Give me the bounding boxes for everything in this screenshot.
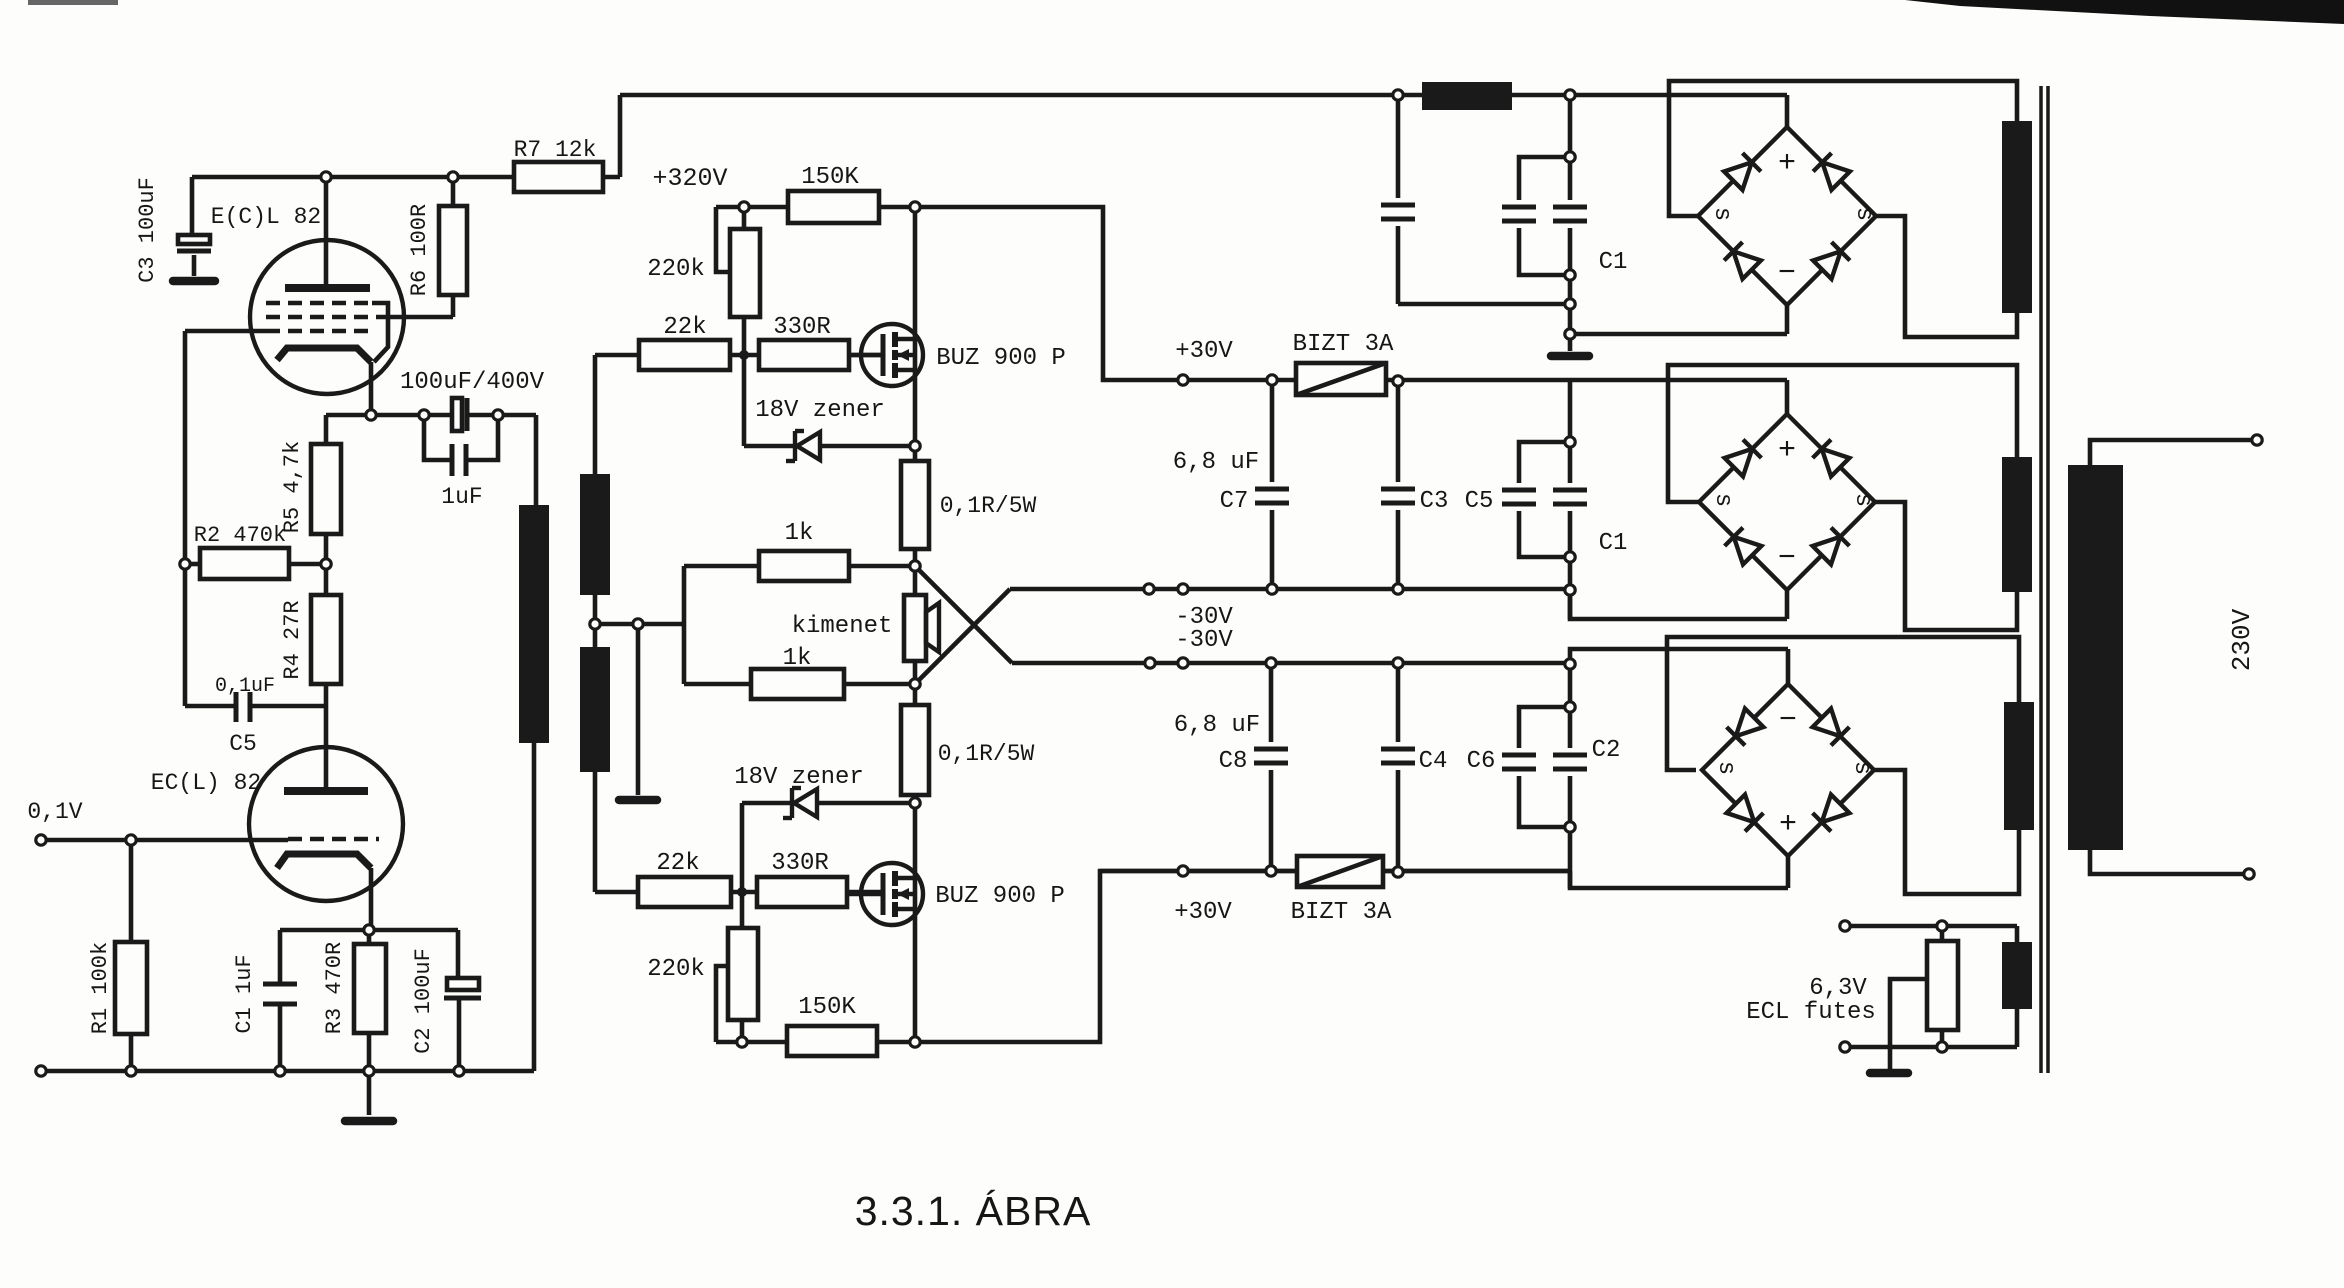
wire 1uF parallel loop xyxy=(424,415,452,460)
capacitor C3 psu plates xyxy=(1381,487,1415,492)
tube V2 cathode xyxy=(277,854,371,868)
wire heater top xyxy=(1845,924,2017,929)
heater hum pot 6,3V xyxy=(1927,941,1958,1030)
wire lower 150K rail xyxy=(716,1040,787,1045)
svg-text:C3: C3 xyxy=(1420,488,1449,515)
resistor 1k upper xyxy=(759,551,849,581)
wire g1 V1 left xyxy=(185,329,266,334)
diode B3 upper-right xyxy=(1813,709,1841,737)
wire cathode node R3/C1/C2 xyxy=(280,928,458,933)
wire 150K to drain node and +30V feed xyxy=(879,207,1787,380)
resistor 150K upper xyxy=(788,191,879,223)
capacitor B+ pair right xyxy=(1553,205,1587,210)
svg-text:+: + xyxy=(1778,147,1796,181)
svg-text:150K: 150K xyxy=(798,994,856,1021)
wire B+ filter column x1398 xyxy=(1396,95,1401,198)
svg-text:6,8 uF: 6,8 uF xyxy=(1173,449,1259,476)
wire R2 right to R5/R4 node xyxy=(289,562,326,567)
svg-text:s: s xyxy=(1712,761,1739,775)
svg-text:330R: 330R xyxy=(773,314,831,341)
wire lower device column xyxy=(913,803,918,1042)
wire lower pair column xyxy=(1568,664,1573,748)
wire R6 screen grid xyxy=(451,177,456,206)
diode B2 lower-left xyxy=(1734,537,1762,565)
capacitor C1 pair right xyxy=(1553,488,1587,493)
wire output transformer primary bottom xyxy=(532,743,537,1071)
wire 220k top stub xyxy=(742,207,747,229)
wire lower pair loop xyxy=(1519,707,1570,748)
svg-text:1k: 1k xyxy=(783,645,812,672)
wire lower filter C8 column xyxy=(1269,663,1274,742)
zener diode Z1 18V xyxy=(793,431,797,461)
wire zener1 row xyxy=(744,444,797,449)
capacitor B+ pair left xyxy=(1502,205,1536,210)
svg-text:C6: C6 xyxy=(1467,748,1496,775)
svg-text:R3 470R: R3 470R xyxy=(322,942,347,1034)
transformer core lines xyxy=(2039,86,2043,1073)
svg-text:+320V: +320V xyxy=(652,164,727,193)
resistor R2 470k xyxy=(200,548,289,579)
resistor R1 100k xyxy=(115,942,147,1034)
wire R2 left stub xyxy=(185,562,200,567)
wire B+ filter pair column xyxy=(1568,95,1573,200)
svg-text:R6 100R: R6 100R xyxy=(407,204,432,296)
bridge rectifier B1 diamond xyxy=(1698,127,1876,305)
wire 230V primary bottom xyxy=(2090,850,2249,874)
wire +320V L-stub to 220k xyxy=(716,207,730,272)
svg-text:0,1V: 0,1V xyxy=(27,799,82,825)
resistor 0,1R/5W lower xyxy=(901,705,929,795)
wire input 0,1V xyxy=(41,838,131,843)
diode B1 lower-right xyxy=(1813,251,1841,279)
svg-text:C4: C4 xyxy=(1419,748,1448,775)
svg-text:−: − xyxy=(1778,542,1796,576)
wire B+ pair loop xyxy=(1519,157,1570,200)
tube V2 grid dashed xyxy=(288,837,379,841)
svg-text:C2: C2 xyxy=(1592,737,1621,764)
svg-text:R7 12k: R7 12k xyxy=(514,137,597,163)
resistor 150K lower xyxy=(787,1026,877,1056)
svg-text:1uF: 1uF xyxy=(441,484,482,510)
svg-text:EC(L) 82: EC(L) 82 xyxy=(151,770,261,796)
diode B2 lower-right xyxy=(1813,537,1841,565)
diode B1 upper-left xyxy=(1724,162,1752,190)
svg-text:−: − xyxy=(1779,704,1797,738)
tube V2 EC(L) 82 envelope xyxy=(249,747,403,901)
svg-text:C2 100uF: C2 100uF xyxy=(411,948,436,1054)
tube V1 anode bar xyxy=(285,284,370,292)
resistor 220k upper xyxy=(730,229,760,317)
wire cathode node to 100uF xyxy=(326,413,452,418)
svg-text:220k: 220k xyxy=(647,956,705,983)
wire secondary center tap xyxy=(593,595,598,647)
heater winding xyxy=(2002,942,2032,1009)
wire 100uF right to transformer xyxy=(467,413,536,418)
capacitor C6 pair left xyxy=(1502,753,1536,758)
wire B+ ground stub xyxy=(1568,334,1573,351)
svg-text:E(C)L 82: E(C)L 82 xyxy=(211,204,321,230)
wire bridge2 + stub xyxy=(1785,380,1790,414)
svg-text:3.3.1. ÁBRA: 3.3.1. ÁBRA xyxy=(855,1188,1092,1234)
svg-text:BUZ 900 P: BUZ 900 P xyxy=(935,883,1065,910)
svg-text:−: − xyxy=(1778,257,1796,291)
wire secondary bottom to lower 22k xyxy=(593,772,598,892)
svg-text:C1: C1 xyxy=(1599,249,1628,276)
resistor R4 27R xyxy=(311,595,341,684)
resistor R6 100R xyxy=(439,206,467,295)
output transformer primary winding xyxy=(519,505,549,743)
svg-text:BUZ 900 P: BUZ 900 P xyxy=(936,345,1066,372)
svg-text:6,3V: 6,3V xyxy=(1809,975,1867,1002)
svg-text:22k: 22k xyxy=(663,314,706,341)
wire bridge2 winding loop xyxy=(1668,365,2017,502)
resistor 330R upper xyxy=(759,340,849,370)
scan artifact top-right wedge xyxy=(1905,0,2344,24)
wire speaker column xyxy=(913,566,918,595)
wire top-left plate rail xyxy=(192,175,514,180)
capacitor C5 0,1uF plates xyxy=(234,692,239,722)
transistor Q2 BUZ 900 P xyxy=(861,863,923,925)
svg-text:18V zener: 18V zener xyxy=(755,397,885,424)
resistor 220k lower xyxy=(728,928,758,1020)
capacitor C1 1uF plates xyxy=(263,982,297,987)
svg-text:0,1R/5W: 0,1R/5W xyxy=(940,493,1037,519)
tube V1 E(C)L 82 envelope xyxy=(250,240,404,394)
wire lower 220k L-stub xyxy=(716,966,728,1042)
svg-text:6,8 uF: 6,8 uF xyxy=(1174,712,1260,739)
wire 22k-330R junction column upper xyxy=(742,317,747,355)
capacitor 1uF plates xyxy=(450,444,455,476)
wire -30V jog to bridge3 - xyxy=(1570,649,1788,663)
transformer winding bridge2 xyxy=(2002,457,2032,592)
resistor 22k lower xyxy=(638,877,731,907)
wire -30V rail lower xyxy=(1012,661,1570,666)
wire R3 column xyxy=(367,930,372,944)
svg-text:0,1R/5W: 0,1R/5W xyxy=(938,741,1035,767)
svg-text:330R: 330R xyxy=(771,850,829,877)
svg-text:R1 100k: R1 100k xyxy=(88,942,113,1034)
wire -30V rail upper xyxy=(1010,587,1570,592)
wire +30V jog to bridge3 + xyxy=(1570,871,1788,888)
svg-text:C5: C5 xyxy=(229,731,257,757)
wire +320V node xyxy=(716,205,789,210)
wire 22k-330R junction column lower xyxy=(740,803,745,892)
wire lower filter C4 column xyxy=(1396,663,1401,742)
wire ground stub R3 xyxy=(367,1071,372,1115)
capacitor C4 plates xyxy=(1381,747,1415,752)
wire R1 column xyxy=(129,840,134,942)
wire bridge3 winding loop xyxy=(1667,637,2019,770)
svg-text:-30V: -30V xyxy=(1175,627,1233,654)
wire gate stub upper xyxy=(849,353,884,358)
transistor Q1 BUZ 900 P xyxy=(861,324,923,386)
wire upper pair column xyxy=(1568,380,1573,483)
tube V1 g3 tie to cathode xyxy=(372,303,388,362)
wire heater bottom xyxy=(1845,1045,2017,1050)
capacitor C7 plates xyxy=(1255,487,1289,492)
svg-text:C1 1uF: C1 1uF xyxy=(232,954,257,1033)
wire output diagonal lower xyxy=(915,589,1010,684)
wire -30V jog to bridge2 - xyxy=(1570,589,1787,619)
svg-text:BIZT 3A: BIZT 3A xyxy=(1291,899,1392,926)
wire C1 column xyxy=(278,930,283,984)
resistor 0,1R/5W upper xyxy=(901,461,929,549)
tube V2 anode bar xyxy=(284,787,368,795)
diode B1 lower-left xyxy=(1733,251,1761,279)
diode B3 lower-left xyxy=(1727,795,1755,823)
svg-text:C8: C8 xyxy=(1219,748,1248,775)
wire V2 cathode out xyxy=(369,868,374,930)
ground secondary center tap xyxy=(619,796,657,805)
svg-text:1k: 1k xyxy=(785,520,814,547)
wire 1k lower right stub xyxy=(844,682,915,687)
output transformer secondary winding upper xyxy=(580,474,610,595)
svg-text:s: s xyxy=(1849,493,1876,507)
junction circles xyxy=(321,172,331,182)
ground B+ filter xyxy=(1551,352,1589,361)
resistor 22k upper xyxy=(639,340,730,370)
wire bridge1 winding loop xyxy=(1669,81,2017,216)
svg-text:18V zener: 18V zener xyxy=(734,764,864,791)
wire upper output device column xyxy=(913,207,918,446)
tube V1 grid g3 dashed xyxy=(266,301,372,305)
svg-text:C5: C5 xyxy=(1465,488,1494,515)
wire +30V lower rail xyxy=(1100,869,1297,874)
fuse BIZT 3A lower xyxy=(1297,856,1383,887)
capacitor C2 100uF electrolytic xyxy=(447,978,479,990)
wire center tap ground stub xyxy=(636,624,641,795)
svg-text:C1: C1 xyxy=(1599,530,1628,557)
junction dot lower bias node xyxy=(737,887,747,897)
transformer winding bridge3 xyxy=(2004,702,2034,830)
capacitor C8 plates xyxy=(1254,747,1288,752)
wire hum pot tap to ground xyxy=(1890,979,1927,1069)
wire lower rail to +30V xyxy=(877,871,1570,1042)
svg-text:ECL futes: ECL futes xyxy=(1746,999,1876,1026)
svg-text:220k: 220k xyxy=(647,256,705,283)
diode B2 upper-right xyxy=(1822,449,1850,477)
svg-text:+: + xyxy=(1778,434,1796,468)
ground below R3 xyxy=(345,1117,393,1126)
svg-text:BIZT 3A: BIZT 3A xyxy=(1293,331,1394,358)
wire g1 long vertical to C5 xyxy=(183,331,188,706)
wire R4 bottom to V2 anode xyxy=(324,684,329,791)
wire R7 to B+ riser xyxy=(603,175,620,180)
fuse black box on B+ rail xyxy=(1422,82,1512,110)
wire upper pair loop xyxy=(1519,442,1570,483)
wire main B+ top rail xyxy=(620,93,1787,98)
wire +30V filter C7 column xyxy=(1270,380,1275,482)
wire 230V primary top xyxy=(2090,440,2257,465)
junction dot upper bias node xyxy=(739,350,749,360)
transformer winding bridge1 xyxy=(2002,121,2032,313)
svg-text:22k: 22k xyxy=(656,850,699,877)
wire 0.1R lower column xyxy=(913,684,918,705)
svg-text:kimenet: kimenet xyxy=(792,613,893,640)
tube V1 grid g2 dashed xyxy=(266,315,378,319)
wire C2 column xyxy=(456,930,461,978)
svg-text:150K: 150K xyxy=(801,164,859,191)
diode B3 upper-left xyxy=(1736,709,1764,737)
capacitor B+ filter at x1398 xyxy=(1381,203,1415,208)
wire bottom bus xyxy=(41,1069,534,1074)
svg-text:s: s xyxy=(1850,207,1877,221)
wire C5 to R4 node xyxy=(252,704,326,709)
resistor 1k lower xyxy=(751,669,844,699)
wire zener2 row xyxy=(742,801,794,806)
tube V1 grid g1 dashed xyxy=(266,329,376,333)
capacitor C2 pair right xyxy=(1553,753,1587,758)
wire hum pot stubs xyxy=(1940,926,1945,941)
zener diode Z2 18V xyxy=(790,788,794,818)
bridge rectifier B3 diamond xyxy=(1702,684,1874,856)
svg-text:R5 4,7k: R5 4,7k xyxy=(280,441,305,533)
mains transformer 230V primary winding xyxy=(2068,465,2123,850)
svg-text:C7: C7 xyxy=(1220,488,1249,515)
diode B3 lower-right xyxy=(1822,795,1850,823)
diode B1 upper-right xyxy=(1822,162,1850,190)
svg-text:R2 470k: R2 470k xyxy=(194,523,286,548)
capacitor C3 100uF xyxy=(178,235,210,244)
wire to 1k pair xyxy=(682,566,687,684)
resistor 330R lower xyxy=(757,877,847,907)
wire B+ minus to bridge1 xyxy=(1570,332,1787,337)
bridge rectifier B2 diamond xyxy=(1699,414,1875,590)
capacitor C5 pair left xyxy=(1502,488,1536,493)
ground heater xyxy=(1870,1069,1908,1078)
fuse BIZT 3A upper xyxy=(1296,363,1386,395)
speaker kimenet xyxy=(904,595,926,661)
wire +30V filter C3 column xyxy=(1396,381,1401,482)
wire tube V1 anode xyxy=(324,177,329,286)
ground below C3 xyxy=(173,277,215,286)
svg-text:s: s xyxy=(1848,761,1875,775)
wire output diagonal upper xyxy=(915,566,1012,663)
output transformer secondary winding lower xyxy=(580,647,610,772)
svg-text:R4 27R: R4 27R xyxy=(280,600,305,679)
wire R5 top xyxy=(324,415,329,444)
wire 1k upper right stub xyxy=(849,564,915,569)
capacitor 100uF/400V electrolytic xyxy=(452,398,462,431)
resistor R3 470R xyxy=(354,944,386,1033)
wire gate stub lower xyxy=(847,890,883,895)
svg-text:0,1uF: 0,1uF xyxy=(215,675,275,698)
diode B2 upper-left xyxy=(1725,449,1753,477)
resistor R5 4,7k xyxy=(311,444,341,534)
resistor R7 12k xyxy=(514,162,603,192)
svg-text:C3 100uF: C3 100uF xyxy=(135,177,160,283)
svg-text:+30V: +30V xyxy=(1174,899,1232,926)
svg-text:230V: 230V xyxy=(2227,608,2257,671)
tube V1 cathode xyxy=(277,348,371,362)
svg-text:+30V: +30V xyxy=(1175,338,1233,365)
wire 0.1R upper column xyxy=(913,446,918,461)
svg-text:s: s xyxy=(1709,493,1736,507)
svg-text:100uF/400V: 100uF/400V xyxy=(400,369,545,396)
wire V1 cathode out xyxy=(369,362,374,415)
svg-text:+: + xyxy=(1779,808,1797,842)
svg-text:s: s xyxy=(1708,207,1735,221)
wire secondary top to 22k xyxy=(593,355,598,474)
